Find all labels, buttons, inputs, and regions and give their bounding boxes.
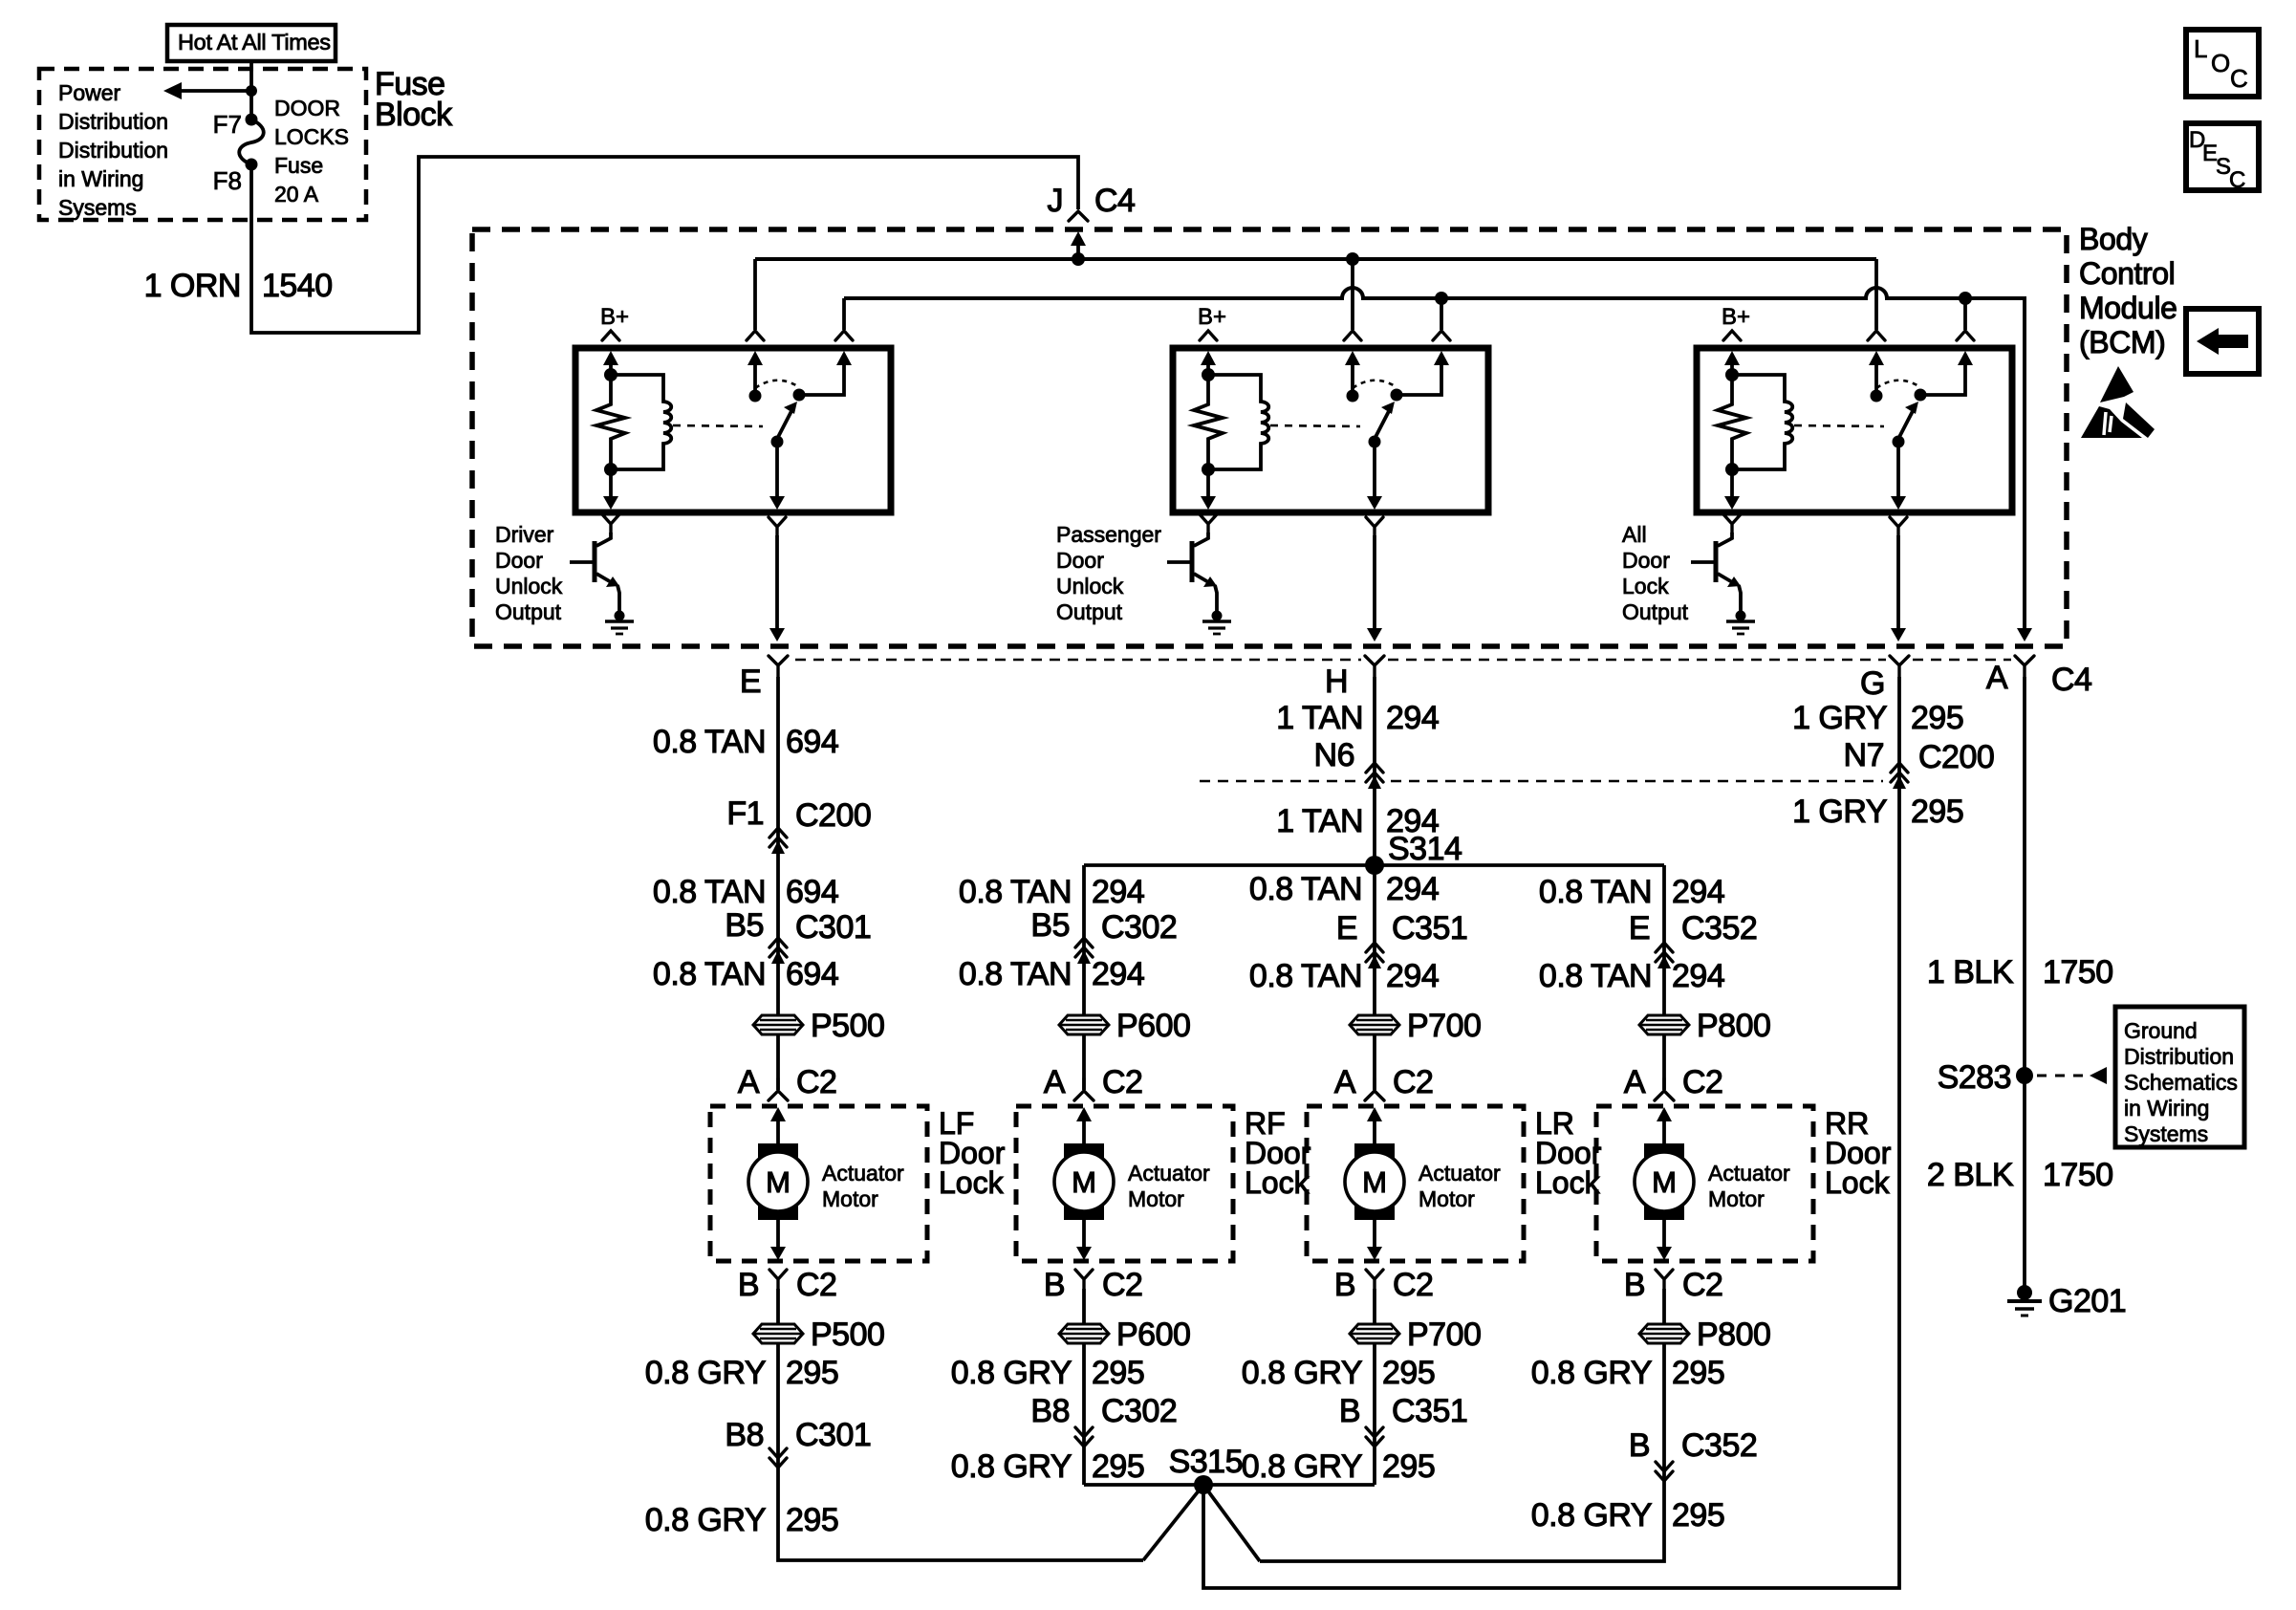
C351 in-line connector on LR return [1366, 1427, 1383, 1447]
RR column wire S314 to actuator [1662, 865, 1666, 1090]
svg-text:All: All [1622, 522, 1647, 547]
LR column wire S314 to actuator [1373, 865, 1376, 1090]
svg-text:694: 694 [786, 874, 838, 910]
svg-text:L: L [2194, 34, 2207, 63]
svg-text:in Wiring: in Wiring [58, 166, 143, 191]
svg-text:295: 295 [1672, 1355, 1724, 1391]
C4 female chevron pin G [1890, 656, 1909, 677]
svg-text:B8: B8 [725, 1417, 764, 1453]
wire line2 to K3 right pin [1963, 298, 1967, 330]
svg-text:Output: Output [1056, 599, 1123, 624]
svg-text:O: O [2211, 49, 2230, 77]
S314 branch run [1084, 863, 1664, 867]
svg-text:F7: F7 [213, 110, 242, 139]
svg-text:295: 295 [1911, 700, 1963, 736]
svg-text:Door: Door [1056, 548, 1104, 573]
svg-text:1 BLK: 1 BLK [1927, 954, 2014, 990]
svg-text:C352: C352 [1681, 910, 1757, 946]
bus line 2 (unlock feed) with hops [844, 288, 2025, 628]
svg-text:1750: 1750 [2043, 954, 2113, 990]
svg-text:C302: C302 [1101, 909, 1177, 946]
svg-text:0.8 GRY: 0.8 GRY [1531, 1355, 1652, 1391]
ground G201 [2017, 1285, 2032, 1300]
C351 in-line connector on LR wire [1366, 943, 1383, 968]
C4 female chevron at J [1069, 211, 1088, 221]
grommet P600 [1059, 1015, 1109, 1034]
svg-text:C: C [2230, 64, 2248, 93]
svg-text:Module: Module [2079, 291, 2177, 325]
LR door lock actuator [1307, 1064, 1524, 1303]
DESC reference box [2186, 123, 2259, 190]
svg-text:0.8 TAN: 0.8 TAN [959, 956, 1072, 992]
svg-text:Sysems: Sysems [58, 195, 137, 220]
svg-text:Control: Control [2079, 256, 2175, 291]
svg-text:Systems: Systems [2124, 1121, 2208, 1146]
svg-text:1 GRY: 1 GRY [1792, 794, 1887, 830]
svg-text:DOOR: DOOR [274, 96, 340, 120]
C302 in-line connector on RF return [1075, 1427, 1093, 1447]
LF return wire down to splice run [778, 1289, 1143, 1560]
svg-text:S315: S315 [1169, 1444, 1243, 1480]
LF door lock actuator [710, 1064, 927, 1303]
svg-text:295: 295 [1672, 1497, 1724, 1534]
svg-text:Hot At All Times: Hot At All Times [178, 30, 331, 54]
splice S283 [2016, 1067, 2033, 1084]
svg-text:C: C [2229, 167, 2245, 193]
svg-text:295: 295 [786, 1502, 838, 1538]
svg-text:0.8 GRY: 0.8 GRY [1242, 1448, 1362, 1485]
svg-text:295: 295 [1092, 1355, 1144, 1391]
svg-text:LOCKS: LOCKS [274, 124, 349, 149]
svg-text:Lock: Lock [1825, 1165, 1891, 1200]
svg-text:C301: C301 [795, 1417, 871, 1453]
LF column wire BCM to actuator [776, 677, 780, 1090]
svg-text:294: 294 [1672, 874, 1724, 910]
svg-text:295: 295 [1911, 794, 1963, 830]
svg-text:294: 294 [1092, 874, 1144, 910]
svg-text:295: 295 [786, 1355, 838, 1391]
svg-text:P600: P600 [1116, 1316, 1190, 1353]
LR return wire down to splice S315 [1373, 1289, 1376, 1485]
A column ground wire [2023, 677, 2026, 1293]
svg-text:0.8 TAN: 0.8 TAN [1539, 958, 1652, 994]
terminal F8 [246, 159, 258, 171]
svg-text:20 A: 20 A [274, 182, 319, 207]
svg-text:0.8 TAN: 0.8 TAN [1249, 871, 1362, 907]
svg-text:1750: 1750 [2043, 1157, 2113, 1193]
svg-text:0.8 TAN: 0.8 TAN [653, 956, 766, 992]
C352 in-line connector on RR return [1656, 1462, 1673, 1481]
grommet P700 [1350, 1015, 1399, 1034]
svg-text:F8: F8 [213, 166, 242, 195]
svg-text:Driver: Driver [495, 522, 554, 547]
RR door lock actuator [1596, 1064, 1813, 1303]
RF column wire S314 to actuator [1082, 865, 1086, 1090]
svg-text:Door: Door [1622, 548, 1670, 573]
svg-text:Distribution: Distribution [2124, 1044, 2234, 1069]
svg-text:P500: P500 [811, 1008, 884, 1044]
svg-text:295: 295 [1382, 1448, 1435, 1485]
C200 in-line connector on G wire [1891, 763, 1908, 789]
S315 lead to all-lock feed [1203, 677, 1899, 1588]
svg-text:E: E [740, 664, 761, 700]
svg-text:C351: C351 [1392, 910, 1467, 946]
C302 in-line connector on RF wire [1075, 938, 1093, 964]
bus line 1 (lock feed) [755, 257, 1876, 261]
svg-text:1 TAN: 1 TAN [1276, 700, 1363, 736]
C301 in-line connector on LF wire [769, 938, 787, 964]
grommet P600 return [1059, 1324, 1109, 1343]
svg-text:Passenger: Passenger [1056, 522, 1161, 547]
svg-text:P700: P700 [1407, 1008, 1481, 1044]
svg-text:P800: P800 [1697, 1008, 1770, 1044]
svg-text:G201: G201 [2048, 1283, 2126, 1319]
svg-text:E: E [1336, 910, 1357, 946]
svg-text:E: E [1629, 910, 1650, 946]
svg-text:in Wiring: in Wiring [2124, 1096, 2209, 1120]
fuse DOOR LOCKS 20A element [239, 120, 264, 164]
svg-text:P600: P600 [1116, 1008, 1190, 1044]
svg-text:Lock: Lock [939, 1165, 1005, 1200]
svg-text:295: 295 [1092, 1448, 1144, 1485]
svg-text:Block: Block [375, 97, 453, 133]
svg-text:G: G [1860, 665, 1885, 702]
node line 2 to K3 right pin [1959, 292, 1972, 305]
svg-text:Power: Power [58, 80, 121, 105]
svg-text:B8: B8 [1030, 1393, 1070, 1429]
grommet P800 [1639, 1015, 1689, 1034]
svg-text:Body: Body [2079, 222, 2148, 256]
RR return wire down to splice run [1260, 1289, 1664, 1561]
svg-text:0.8 GRY: 0.8 GRY [951, 1448, 1072, 1485]
C200 connector dashed interface line [1200, 780, 1883, 783]
wire line1 to K3 mid pin [1874, 259, 1878, 330]
node J to line 1 [1072, 252, 1085, 266]
svg-text:B5: B5 [1030, 907, 1070, 944]
C301 in-line connector on LF return [769, 1448, 787, 1468]
arrow reference box [2186, 309, 2259, 374]
svg-text:C200: C200 [1918, 739, 1994, 775]
relay K1 driver door unlock [570, 304, 891, 642]
svg-text:0.8 GRY: 0.8 GRY [1242, 1355, 1362, 1391]
S315 diagonal to LF run [1143, 1485, 1203, 1560]
svg-text:C4: C4 [2051, 662, 2091, 698]
svg-text:P800: P800 [1697, 1316, 1770, 1353]
svg-text:Door: Door [495, 548, 543, 573]
svg-text:P700: P700 [1407, 1316, 1481, 1353]
fuse block dashed box [39, 69, 366, 220]
Hot At All Times box [167, 25, 336, 61]
svg-text:0.8 GRY: 0.8 GRY [951, 1355, 1072, 1391]
svg-text:1 GRY: 1 GRY [1792, 700, 1887, 736]
C4 female chevron pin H [1365, 656, 1384, 677]
svg-text:Lock: Lock [1245, 1165, 1310, 1200]
svg-text:B: B [1629, 1427, 1650, 1464]
grommet P700 return [1350, 1324, 1399, 1343]
splice S314 [1365, 856, 1384, 875]
svg-text:P500: P500 [811, 1316, 884, 1353]
svg-text:C301: C301 [795, 909, 871, 946]
BCM pin A arrow [2017, 628, 2032, 642]
relay K2 passenger door unlock [1167, 304, 1488, 642]
ground distribution reference box [2115, 1007, 2244, 1147]
dashed reference link to ground distribution [2037, 1075, 2090, 1077]
svg-text:Lock: Lock [1622, 574, 1669, 598]
svg-text:0.8 GRY: 0.8 GRY [645, 1355, 766, 1391]
svg-text:294: 294 [1092, 956, 1144, 992]
svg-text:0.8 TAN: 0.8 TAN [959, 874, 1072, 910]
ESD sensitive device symbol [2100, 366, 2134, 402]
wire from F8 to BCM pin J [251, 157, 1078, 333]
svg-text:Output: Output [1622, 599, 1689, 624]
S315 diagonal to RR run [1203, 1485, 1260, 1561]
grommet P500 [753, 1015, 803, 1034]
svg-text:C351: C351 [1392, 1393, 1467, 1429]
svg-text:1540: 1540 [262, 268, 333, 304]
svg-text:694: 694 [786, 724, 838, 760]
svg-text:Ground: Ground [2124, 1018, 2198, 1043]
svg-text:Distribution: Distribution [58, 109, 168, 134]
arrow to power distribution [180, 89, 251, 93]
svg-text:0.8 GRY: 0.8 GRY [645, 1502, 766, 1538]
svg-text:F1: F1 [726, 795, 764, 832]
svg-text:294: 294 [1386, 871, 1439, 907]
svg-text:294: 294 [1386, 958, 1439, 994]
svg-text:294: 294 [1672, 958, 1724, 994]
RF return wire down to splice S315 [1082, 1289, 1086, 1485]
svg-text:Output: Output [495, 599, 562, 624]
svg-text:2 BLK: 2 BLK [1927, 1157, 2014, 1193]
wire line1 to K1 mid pin [753, 259, 757, 330]
C4 connector dashed interface line [795, 659, 2011, 662]
svg-text:B: B [1339, 1393, 1360, 1429]
svg-text:C352: C352 [1681, 1427, 1757, 1464]
RF door lock actuator [1016, 1064, 1233, 1303]
C4 female chevron pin E [769, 656, 788, 677]
BCM pin J arrow [1071, 231, 1086, 246]
wire line2 to K2 right pin [1440, 298, 1443, 330]
LOC reference box [2186, 30, 2259, 97]
svg-text:Lock: Lock [1535, 1165, 1601, 1200]
BCM dashed outline [472, 229, 2067, 646]
wire from hot feed down to fuse [249, 61, 253, 120]
terminal F7 [246, 114, 258, 126]
svg-text:295: 295 [1382, 1355, 1435, 1391]
svg-text:0.8 TAN: 0.8 TAN [653, 724, 766, 760]
svg-text:(BCM): (BCM) [2079, 325, 2165, 359]
node line 2 to K2 right pin [1435, 292, 1448, 305]
svg-text:694: 694 [786, 956, 838, 992]
C4 female chevron pin A [2015, 656, 2034, 677]
svg-text:Unlock: Unlock [1056, 574, 1124, 598]
splice S315 [1194, 1475, 1213, 1494]
svg-text:J: J [1048, 183, 1064, 219]
C352 in-line connector on RR wire [1656, 943, 1673, 968]
C200 in-line connector on H wire [1366, 763, 1383, 789]
svg-text:0.8 TAN: 0.8 TAN [1539, 874, 1652, 910]
svg-text:Fuse: Fuse [274, 153, 323, 178]
svg-text:Unlock: Unlock [495, 574, 563, 598]
svg-text:S283: S283 [1938, 1059, 2011, 1096]
svg-text:S314: S314 [1388, 831, 1462, 867]
node line 1 to K2 [1346, 252, 1359, 266]
H column wire BCM to S314 [1373, 677, 1376, 865]
node at hot feed [246, 85, 257, 97]
grommet P800 return [1639, 1324, 1689, 1343]
svg-text:H: H [1325, 664, 1348, 700]
svg-text:N6: N6 [1314, 737, 1354, 773]
svg-text:294: 294 [1386, 700, 1439, 736]
svg-text:C302: C302 [1101, 1393, 1177, 1429]
svg-text:C200: C200 [795, 797, 871, 834]
svg-text:1 TAN: 1 TAN [1276, 803, 1363, 839]
svg-text:0.8 GRY: 0.8 GRY [1531, 1497, 1652, 1534]
svg-text:0.8 TAN: 0.8 TAN [653, 874, 766, 910]
svg-text:C4: C4 [1094, 183, 1135, 219]
svg-text:B5: B5 [725, 907, 764, 944]
svg-text:A: A [1986, 660, 2008, 696]
C200 in-line connector on LF wire [769, 828, 787, 854]
splice S315 cross run [1084, 1483, 1375, 1487]
wire line1 to K2 mid pin [1351, 259, 1354, 330]
svg-text:0.8 TAN: 0.8 TAN [1249, 958, 1362, 994]
svg-text:N7: N7 [1844, 737, 1884, 773]
wire line2 to K1 right pin [842, 298, 846, 330]
svg-text:1 ORN: 1 ORN [144, 268, 241, 304]
relay K3 all door lock [1691, 304, 2012, 642]
svg-text:Schematics: Schematics [2124, 1070, 2238, 1095]
svg-text:Distribution: Distribution [58, 138, 168, 163]
grommet P500 return [753, 1324, 803, 1343]
